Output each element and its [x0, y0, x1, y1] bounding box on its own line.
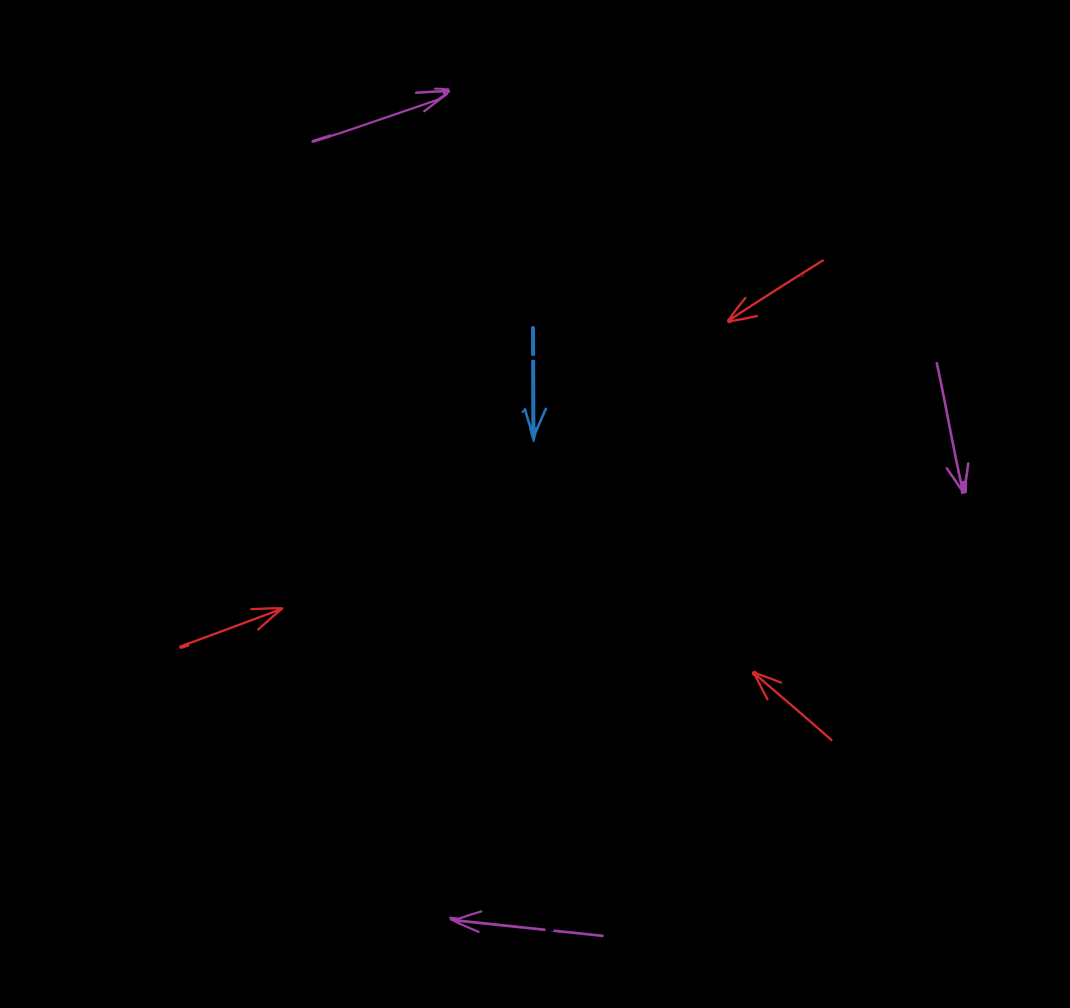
- arrow red mid-left: [180, 608, 282, 648]
- upper barb: [754, 673, 781, 683]
- left barb: [525, 409, 533, 434]
- arrow purple right: [937, 363, 968, 493]
- lower barb: [729, 316, 757, 321]
- arrow red lower-right: [752, 671, 832, 740]
- left barb: [947, 468, 961, 489]
- wire shaft: [458, 921, 602, 936]
- left barb hook: [523, 409, 526, 412]
- right barb: [965, 464, 968, 484]
- wire shaft: [181, 609, 283, 647]
- wire shaft: [937, 363, 963, 490]
- right barb: [536, 409, 546, 432]
- black text overlap on bottom purple shaft: [546, 928, 554, 931]
- black text overlap on shaft: [800, 274, 803, 276]
- upper barb: [459, 911, 482, 918]
- tip blob: [727, 318, 732, 323]
- tip wedge: [450, 917, 458, 922]
- lower barb: [424, 94, 447, 111]
- upper barb: [251, 607, 282, 610]
- arrow purple bottom: [450, 911, 602, 935]
- arrow red top-right: [727, 261, 823, 324]
- tip blob: [752, 671, 757, 676]
- tip fill: [530, 428, 538, 442]
- lower barb: [754, 673, 767, 699]
- wire shaft tail scribble: [180, 646, 189, 648]
- tip blob: [961, 481, 967, 493]
- arrow purple top-left: [313, 89, 450, 142]
- upper barb: [728, 298, 745, 321]
- wire shaft: [728, 261, 823, 322]
- wire shaft: [754, 673, 831, 740]
- lower barb: [456, 922, 479, 932]
- black text overlap on blue shaft: [530, 356, 536, 360]
- arrowhead tip blob: [442, 89, 449, 94]
- lower barb: [258, 609, 282, 630]
- upper barb: [416, 91, 443, 93]
- arrow blue center: [523, 328, 546, 441]
- wire shaft: [313, 94, 447, 141]
- wire shaft: [531, 328, 535, 437]
